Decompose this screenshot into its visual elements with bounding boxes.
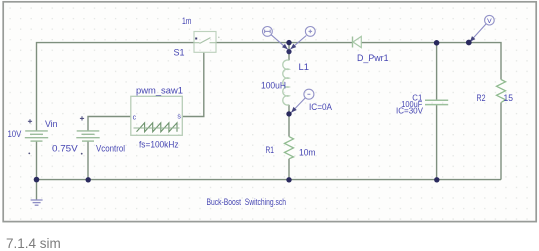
svg-text:1m: 1m bbox=[182, 16, 192, 26]
voltage probe arrow to node C bbox=[470, 24, 486, 42]
voltage source Vcontrol battery symbol bbox=[76, 131, 99, 141]
node A lower cluster dot bbox=[286, 49, 291, 54]
Vcontrol minus mark bbox=[81, 153, 83, 155]
svg-text:s: s bbox=[177, 114, 181, 121]
svg-text:IC=0A: IC=0A bbox=[309, 102, 332, 112]
cut-off page text below frame bbox=[6, 236, 61, 251]
current probe P1 circle bbox=[263, 27, 273, 37]
ground symbol bbox=[31, 200, 43, 205]
junction dot ground node bbox=[34, 177, 40, 183]
wire node B to node C bbox=[437, 42, 469, 44]
probe P1 arrow to node A bbox=[271, 35, 288, 50]
svg-text:D_Pwr1: D_Pwr1 bbox=[357, 53, 389, 63]
svg-text:c: c bbox=[133, 114, 137, 121]
wire pwm pin s to S1 control bbox=[182, 52, 204, 116]
wire node B to C1 top plate bbox=[436, 43, 438, 100]
switch S1 box bbox=[194, 32, 216, 53]
IC probe arrow to node D bbox=[291, 98, 305, 113]
wire bottom rail R1 to Vcontrol bbox=[88, 179, 289, 181]
Vcontrol plus sign bbox=[80, 116, 84, 120]
pwm sawtooth waveform bbox=[137, 123, 178, 132]
junction dot R1 bottom bbox=[286, 177, 291, 182]
diode D_Pwr1 cathode bar bbox=[352, 37, 354, 48]
junction dot C1 bottom bbox=[434, 177, 439, 182]
svg-text:10V: 10V bbox=[8, 129, 23, 139]
inductor L1 coil bbox=[283, 60, 289, 105]
wire Vin plus to S1 left (top-left corner) bbox=[37, 43, 195, 131]
svg-text:10m: 10m bbox=[299, 148, 316, 158]
voltage source V1 Vin battery symbol bbox=[25, 131, 48, 141]
svg-text:Vin: Vin bbox=[45, 119, 58, 129]
V1 plus sign bbox=[28, 119, 32, 123]
probe P2 arrow to node A bbox=[291, 36, 307, 50]
resistor R1 zigzag bbox=[285, 137, 294, 159]
svg-text:L1: L1 bbox=[299, 62, 310, 73]
capacitor C1 plates bbox=[425, 100, 448, 104]
S1 blade and contacts bbox=[194, 38, 216, 44]
wire ground stem bbox=[36, 180, 38, 200]
svg-text:Buck-Boost Switching.sch: Buck-Boost Switching.sch bbox=[207, 197, 287, 207]
svg-text:0.75V: 0.75V bbox=[52, 143, 79, 153]
wire node D to R1 top bbox=[288, 114, 290, 137]
wire diode anode to node B bbox=[361, 42, 437, 44]
svg-text:R1: R1 bbox=[266, 145, 275, 155]
wire R1 bottom to rail bbox=[288, 159, 290, 180]
subcircuit pwm_saw1 box bbox=[131, 96, 183, 135]
svg-text:V: V bbox=[487, 18, 492, 25]
node C junction dot bbox=[466, 40, 472, 46]
svg-text:100uH: 100uH bbox=[261, 80, 286, 90]
wire R2 bottom to rail bbox=[500, 103, 502, 180]
svg-text:S1: S1 bbox=[174, 48, 185, 58]
node B junction dot bbox=[434, 40, 440, 46]
pwm waveform axis line bbox=[134, 127, 180, 129]
wire L1 bottom to node D bbox=[288, 105, 290, 114]
S1 outside tick bbox=[218, 37, 220, 39]
svg-text:Vcontrol: Vcontrol bbox=[96, 144, 125, 154]
wire S1 right to node A bbox=[216, 42, 289, 44]
initial-condition probe circle for L1 bbox=[304, 89, 314, 99]
svg-text:15: 15 bbox=[504, 93, 514, 103]
svg-text:fs=100kHz: fs=100kHz bbox=[139, 140, 179, 150]
voltage probe V circle bbox=[485, 15, 495, 25]
resistor R2 zigzag bbox=[497, 80, 506, 103]
wire Vcontrol plus to pwm pin c bbox=[88, 117, 131, 131]
wire bottom rail C1 to R1 bbox=[289, 179, 437, 181]
wire bottom rail Vcontrol to ground node bbox=[37, 179, 89, 181]
current probe P2 circle bbox=[305, 27, 315, 37]
junction dot Vcontrol bottom bbox=[86, 177, 91, 182]
wire Vcontrol minus to rail bbox=[87, 141, 89, 179]
wire node A to diode cathode bbox=[289, 42, 352, 44]
wire C1 bottom plate to rail bbox=[436, 105, 438, 180]
svg-text:IC=30V: IC=30V bbox=[396, 106, 424, 115]
node D junction dot bbox=[286, 111, 291, 116]
svg-text:R2: R2 bbox=[477, 93, 486, 103]
diode D_Pwr1 triangle bbox=[353, 36, 361, 47]
wire Vin minus to rail bbox=[36, 141, 38, 179]
wire node C to R2 top (top-right corner) bbox=[469, 43, 501, 80]
V1 minus mark bbox=[28, 153, 30, 155]
wire bottom rail R2 corner to C1 bbox=[437, 179, 501, 181]
node A junction dot on top rail bbox=[286, 40, 291, 45]
svg-text:pwm_saw1: pwm_saw1 bbox=[136, 85, 183, 95]
S1 contact dot bbox=[195, 38, 197, 40]
wire node A to L1 top bbox=[288, 43, 290, 61]
